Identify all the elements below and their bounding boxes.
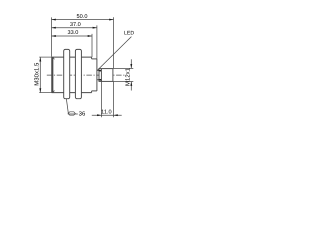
hex nut 2 [75, 49, 81, 98]
rear collar [92, 59, 97, 91]
LED leader arrow [97, 70, 101, 72]
svg-text:LED: LED [124, 31, 134, 37]
dim 50.0 arrows [52, 19, 56, 21]
svg-text:33.0: 33.0 [67, 30, 78, 36]
M30 extension ticks [39, 56, 51, 58]
M12 extension ticks [113, 67, 133, 69]
extension line left (x=51.5) [51, 17, 53, 56]
svg-text:M30x1.5: M30x1.5 [34, 62, 41, 86]
barrel end step [91, 57, 93, 93]
dimension line 37.0 [52, 27, 97, 29]
hex symbol [68, 112, 75, 115]
dim 33.0 arrows [52, 35, 56, 37]
extension line right bottom (x=113.5) [113, 82, 115, 118]
dimension line 33.0 [52, 35, 93, 37]
housing-end arrow at 11.0 ext [97, 79, 101, 81]
svg-text:37.0: 37.0 [70, 22, 81, 28]
svg-text:36: 36 [79, 111, 86, 118]
M30 dim arrows [39, 57, 41, 61]
M12 dimension line tails [130, 59, 132, 68]
svg-text:11.0: 11.0 [101, 110, 111, 116]
face chamfer [53, 57, 54, 92]
M30 dimension line [39, 57, 41, 92]
arrowheads [39, 19, 132, 117]
M12 dim outside arrows [130, 64, 132, 68]
dimension line 50.0 [52, 19, 114, 21]
svg-text:50.0: 50.0 [77, 14, 88, 20]
dim 11.0 outside arrows [97, 114, 101, 116]
LED leader [97, 37, 131, 71]
connector M12 body [99, 69, 113, 82]
svg-text:M12x1: M12x1 [124, 67, 131, 86]
dim 37.0 arrows [52, 27, 56, 29]
centerline [47, 74, 125, 76]
extension line right top (x=113.5) [113, 17, 115, 68]
extension line 37.0 (x=96.9) [96, 25, 98, 59]
hex36 leader [66, 99, 77, 114]
barrel body [51, 57, 91, 93]
dimension line 11.0 [92, 114, 122, 116]
hex nut 1 [64, 49, 70, 98]
tail to housing end with arrow [97, 79, 102, 81]
extension line 11.0 left (x=101.4) [100, 80, 102, 118]
extension line 33.0 (x=92.0) [91, 34, 93, 57]
